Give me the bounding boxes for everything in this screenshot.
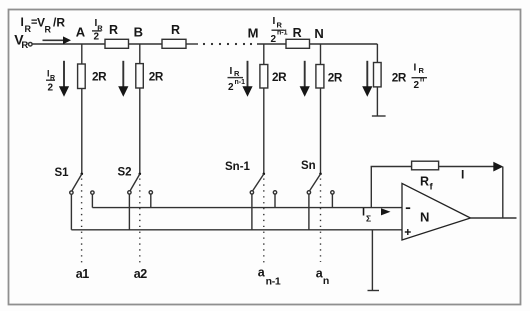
svg-text:I: I — [461, 168, 464, 182]
switch S2 — [118, 88, 153, 264]
node an label — [316, 266, 330, 287]
svg-text:R: R — [45, 25, 52, 35]
svg-text:I: I — [414, 63, 417, 74]
wire rail corner down to terminator — [376, 44, 378, 63]
ground (below lower bus) — [368, 290, 380, 292]
wire summing bus (upper) — [92, 207, 402, 209]
resistor Rf — [412, 161, 439, 192]
svg-text:Sn-1: Sn-1 — [225, 161, 251, 173]
wire ground bus (lower) — [71, 229, 402, 231]
svg-text:I: I — [362, 207, 365, 219]
wire rail segment 2 — [129, 43, 163, 45]
svg-text:2: 2 — [271, 34, 277, 45]
svg-text:N: N — [420, 210, 429, 225]
svg-text:N: N — [314, 26, 323, 41]
svg-text:A: A — [76, 24, 86, 39]
svg-text:I: I — [273, 16, 276, 27]
svg-text:R: R — [171, 23, 180, 37]
resistor 2R terminator — [374, 63, 407, 87]
svg-text:R: R — [420, 175, 429, 189]
node M — [248, 25, 264, 64]
svg-text:R: R — [234, 69, 240, 78]
node N — [314, 26, 323, 65]
svg-text:2: 2 — [48, 83, 54, 94]
resistor 2R at node M — [260, 65, 287, 89]
svg-text:a: a — [258, 266, 266, 280]
svg-text:I: I — [21, 15, 24, 29]
ground (terminator) — [372, 115, 386, 117]
svg-text:2R: 2R — [392, 72, 407, 85]
current arrow (node N branch) — [300, 61, 310, 97]
svg-text:a1: a1 — [76, 267, 89, 281]
wire terminator to ground — [376, 87, 378, 116]
svg-text:n: n — [420, 77, 424, 84]
svg-text:n: n — [323, 275, 329, 287]
svg-text:/R: /R — [53, 16, 65, 30]
resistor 2R at node B — [136, 64, 164, 88]
current arrow (node M branch) — [242, 61, 252, 97]
input current arrow — [43, 36, 72, 44]
svg-text:2R: 2R — [328, 72, 343, 85]
current label I_R/2^n (terminator) — [412, 63, 428, 92]
wire rail segment 5 — [310, 43, 378, 45]
svg-text:2R: 2R — [149, 71, 164, 84]
switch S1 — [55, 89, 95, 264]
svg-text:2R: 2R — [92, 71, 107, 84]
svg-text:R: R — [419, 66, 425, 75]
svg-text:n-1: n-1 — [277, 30, 288, 37]
svg-text:S2: S2 — [118, 167, 132, 179]
svg-text:B: B — [134, 25, 143, 40]
switch Sn — [301, 88, 334, 262]
resistor R (M-N) — [286, 26, 310, 49]
label formula I_R = V_R / R — [21, 15, 66, 35]
wire feedback riser — [370, 167, 372, 208]
wire rail segment 3 — [186, 43, 198, 45]
svg-text:2: 2 — [228, 82, 234, 93]
svg-text:R: R — [50, 75, 55, 82]
svg-text:Σ: Σ — [366, 214, 371, 224]
wire feedback top right with current arrow I — [439, 162, 504, 182]
current arrow (node B branch) — [118, 61, 128, 97]
current label I_R/2^(n-1) (node M branch) — [228, 66, 246, 93]
current label I_R/2 (left branch) — [46, 69, 55, 94]
node B — [134, 25, 143, 64]
current label I_sigma with arrow — [362, 207, 391, 224]
svg-text:2: 2 — [414, 80, 420, 91]
wire main rail segment 1 — [32, 43, 105, 45]
svg-text:M: M — [248, 25, 259, 40]
resistor R (after B) — [162, 23, 186, 48]
svg-text:R: R — [277, 21, 283, 30]
svg-text:I: I — [230, 66, 233, 77]
source terminal V_R — [14, 31, 32, 51]
wire rail segment 4 — [257, 43, 286, 45]
wire feedback top left — [371, 166, 412, 168]
switch Sn-1 — [225, 88, 277, 264]
current arrow (terminator branch) — [362, 61, 372, 97]
current label I_R/2 at node A — [92, 18, 103, 43]
svg-text:2: 2 — [94, 32, 100, 43]
current label I_R/2^(n-1) at node M — [271, 16, 288, 45]
svg-text:R: R — [293, 26, 302, 40]
svg-text:a2: a2 — [134, 267, 147, 281]
svg-text:S1: S1 — [55, 167, 70, 179]
resistor 2R at node A — [78, 64, 108, 89]
wire op-amp output — [471, 217, 517, 219]
node an-1 label — [258, 266, 281, 288]
op-amp N — [402, 183, 471, 240]
resistor 2R at node N — [316, 65, 343, 89]
wire ground stub from lower bus — [371, 230, 373, 291]
wire dotted rail continuation — [203, 43, 252, 45]
current arrow I_R/2 (node A branch) — [59, 61, 69, 97]
svg-text:2R: 2R — [272, 71, 287, 84]
svg-text:R: R — [21, 40, 28, 51]
svg-text:Sn: Sn — [301, 160, 316, 172]
wire feedback down to output — [502, 167, 504, 219]
svg-text:n-1: n-1 — [235, 79, 246, 86]
svg-text:R: R — [109, 23, 118, 37]
svg-text:n-1: n-1 — [266, 275, 281, 287]
node A — [76, 24, 86, 64]
resistor R (A-B) — [105, 23, 129, 48]
